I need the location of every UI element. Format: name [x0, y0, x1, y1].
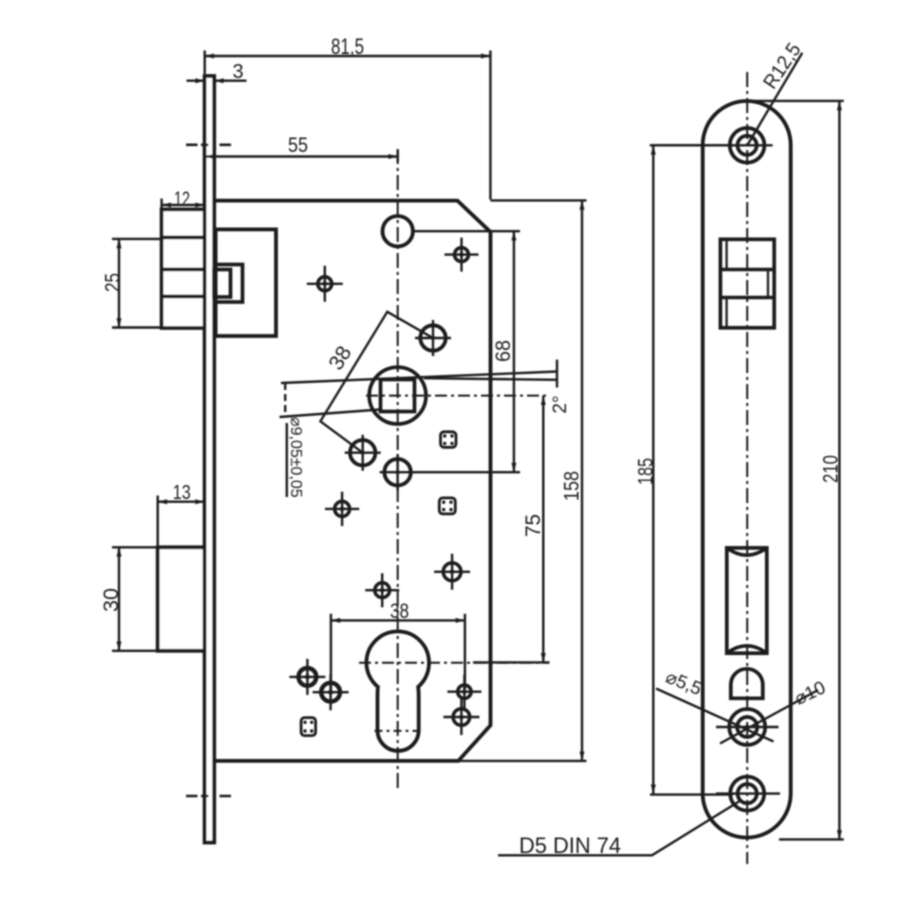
right view centerline [746, 72, 748, 864]
spindle square hole [381, 380, 415, 412]
lock case outline [214, 201, 490, 761]
small hole G [365, 573, 399, 607]
svg-text:30: 30 [100, 588, 123, 612]
medium hole E (below hub on centerline) [380, 454, 416, 490]
small hole K (right cylinder fixing) [447, 675, 481, 709]
deadbolt side view [158, 547, 205, 651]
svg-text:25: 25 [102, 273, 125, 292]
small hole L (right, lower) [443, 699, 479, 735]
svg-text:68: 68 [492, 340, 515, 362]
dimension 3 (plate thickness) [187, 78, 247, 83]
svg-text:D5 DIN 74: D5 DIN 74 [519, 833, 621, 858]
svg-text:55: 55 [288, 134, 308, 157]
plate bottom screw position mark [186, 795, 231, 798]
dimension 30 (deadbolt height) [112, 547, 156, 651]
small hole F [325, 492, 359, 526]
dimension 75 [473, 396, 550, 663]
bottom screw hole [716, 777, 780, 811]
svg-text:185: 185 [635, 458, 658, 485]
dimension 68 [412, 231, 520, 472]
dimension 38 diagonal (hub to holes) [320, 312, 433, 453]
center screw hole [716, 709, 779, 745]
small hole H [434, 554, 470, 590]
svg-text:13: 13 [173, 482, 191, 504]
dimension 38 (cylinder fixing holes) [331, 614, 465, 690]
dimension 185 [650, 145, 733, 794]
faceplate side view [205, 76, 215, 843]
square nut symbol 2 [439, 498, 455, 514]
small hole B (upper left) [307, 266, 343, 302]
cylinder stem bottom tick [375, 730, 423, 732]
vertical centerline of left view [397, 149, 399, 788]
latch housing [216, 229, 276, 336]
latch tail bracket [214, 265, 243, 303]
follower bore note ⌀9,05±0,05 [280, 372, 558, 498]
square nut symbol 3 [301, 718, 316, 736]
svg-text:12: 12 [174, 189, 190, 211]
faceplate front outline [703, 101, 791, 838]
svg-text:3: 3 [232, 61, 243, 83]
svg-text:210: 210 [820, 455, 843, 483]
dimension 210 [748, 101, 844, 840]
dimension 13 (deadbolt protrusion) [158, 496, 205, 548]
spindle hub circle [369, 367, 426, 424]
svg-text:38: 38 [390, 600, 409, 623]
diameter 5,5 leader [656, 689, 774, 742]
dimension 81,5 [205, 51, 491, 200]
auxiliary latch (D piece) [731, 669, 763, 699]
svg-text:⌀9,05±0,05: ⌀9,05±0,05 [287, 417, 304, 498]
plate top screw position mark [186, 144, 231, 147]
euro cylinder profile hole [366, 631, 429, 751]
svg-text:81,5: 81,5 [331, 34, 364, 59]
medium hole D (lower left of hub) [345, 435, 381, 471]
small hole J (left cylinder fixing) [313, 674, 349, 710]
dimension 12 (latch protrusion) [162, 199, 205, 212]
square nut symbol 1 [441, 432, 457, 448]
dimension 25 (latch height) [112, 239, 160, 328]
svg-text:2°: 2° [550, 395, 571, 413]
dimension 55 [205, 150, 398, 162]
diameter 10 leader [720, 690, 818, 744]
svg-text:75: 75 [522, 514, 545, 537]
top hole [383, 216, 413, 246]
hub horizontal centerline [366, 395, 550, 397]
latch bolt side view [162, 209, 205, 328]
top screw hole [651, 128, 773, 163]
R12,5 leader [747, 53, 802, 145]
dimension 158 [458, 200, 586, 761]
svg-text:R12,5: R12,5 [759, 39, 805, 93]
latch opening front view [720, 239, 774, 327]
deadbolt opening front view [727, 548, 767, 653]
svg-text:⌀10: ⌀10 [791, 676, 829, 708]
D5 DIN 74 note and leader [498, 802, 739, 856]
cylinder horizontal centerline [359, 662, 550, 664]
svg-text:158: 158 [561, 471, 584, 501]
medium hole C (upper right of hub) [415, 320, 451, 356]
small hole I (left of cylinder, upper) [289, 659, 325, 695]
small hole A (top right) [445, 238, 479, 272]
2 degree angle annotation [424, 360, 557, 388]
